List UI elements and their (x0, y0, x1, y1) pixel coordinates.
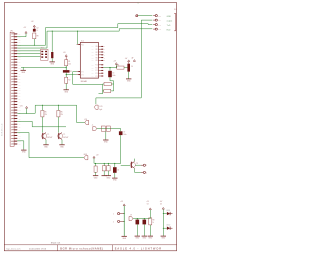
svg-text:EAGLE 4.0 - LIGHTWOR: EAGLE 4.0 - LIGHTWOR (115, 248, 162, 251)
svg-text:TxD: TxD (167, 25, 171, 27)
svg-text:RxD: RxD (167, 30, 171, 32)
svg-text:24.04.2005 17:06: 24.04.2005 17:06 (29, 249, 47, 251)
svg-text:BGR Micro schoco(NAME): BGR Micro schoco(NAME) (60, 248, 103, 251)
svg-text:IC1: IC1 (81, 41, 84, 43)
svg-text:JP1: JP1 (10, 30, 13, 32)
svg-text:bgr_micro.sch: bgr_micro.sch (7, 249, 21, 251)
svg-text:BGR-Micro.de: BGR-Micro.de (2, 122, 4, 136)
svg-text:GND: GND (167, 16, 172, 18)
